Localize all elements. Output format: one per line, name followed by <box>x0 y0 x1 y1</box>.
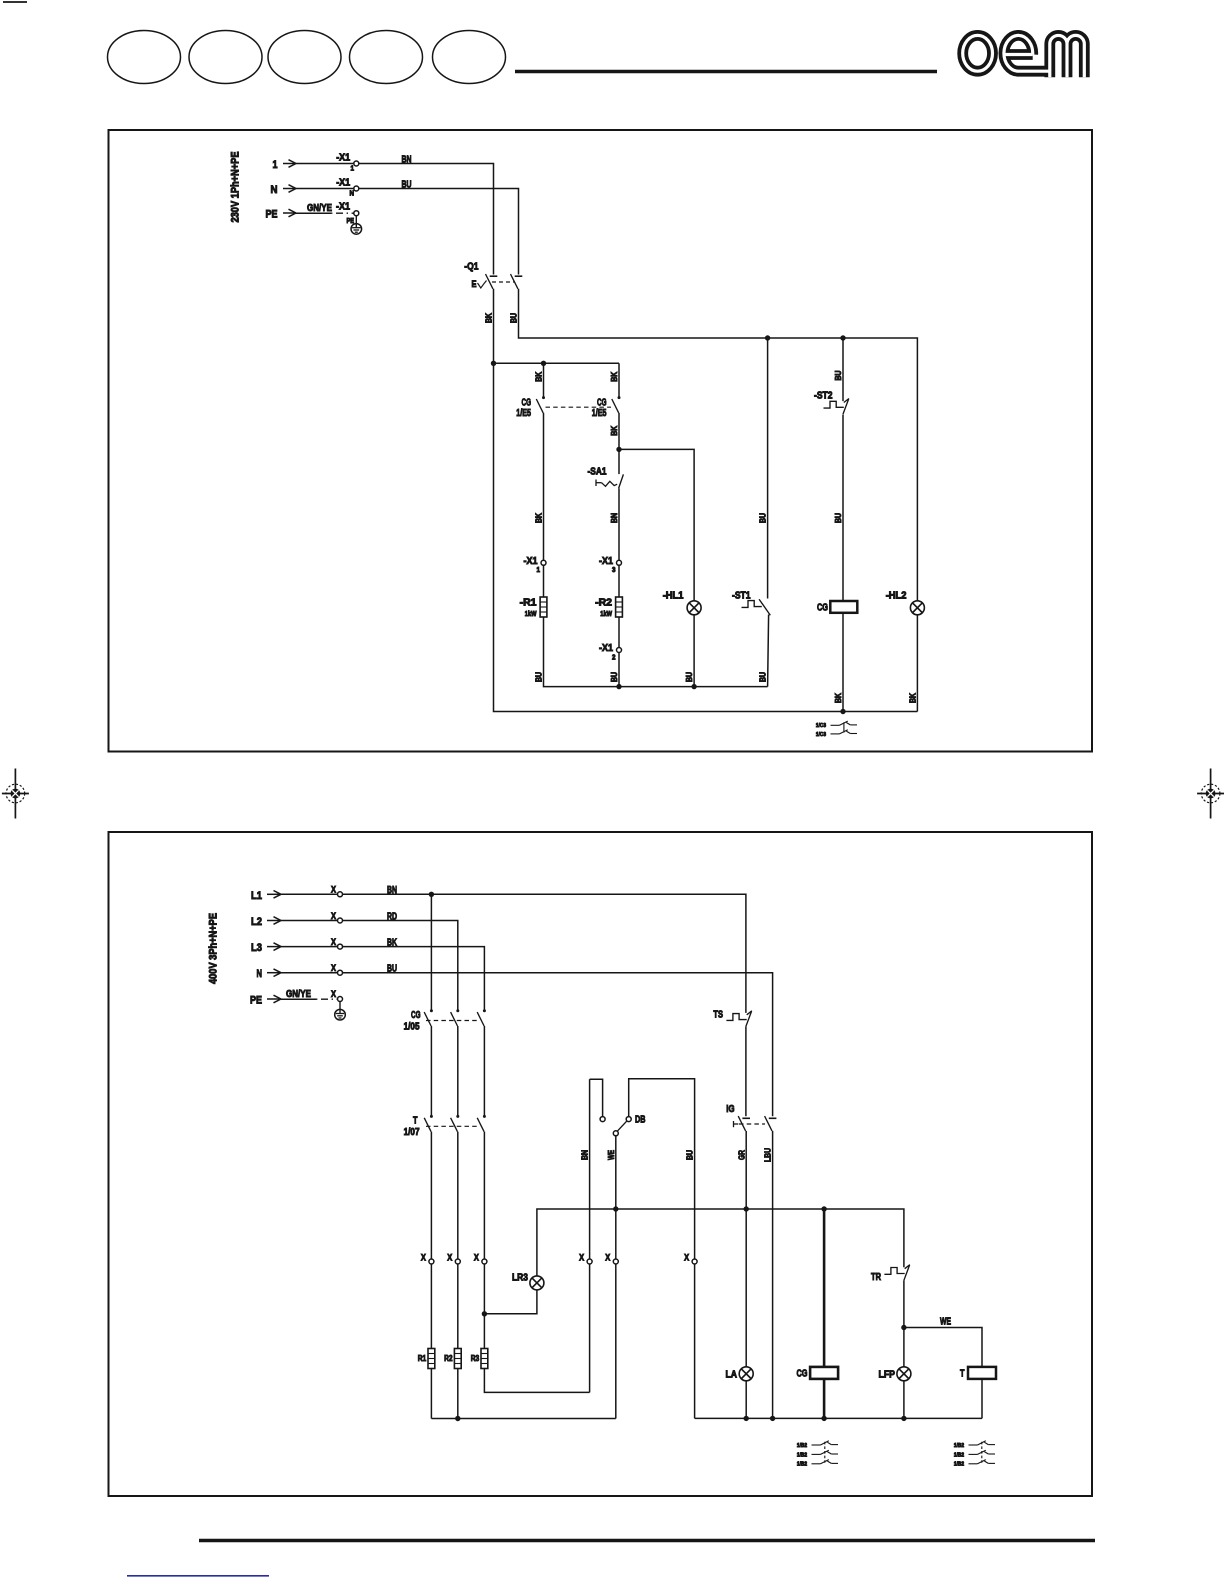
svg-text:BU: BU <box>534 672 544 682</box>
wire col1 to CG contact <box>543 363 545 397</box>
wire Q1 left down to bottom bus <box>494 289 918 712</box>
svg-text:L1: L1 <box>251 890 262 902</box>
svg-text:BU: BU <box>684 672 694 682</box>
svg-text:L3: L3 <box>251 942 262 954</box>
svg-text:X: X <box>684 1252 689 1262</box>
svg-text:X: X <box>447 1252 452 1262</box>
svg-text:X: X <box>331 963 336 973</box>
wire TS to IG <box>745 1026 747 1116</box>
wire L1 branch down <box>430 894 432 1010</box>
svg-text:BU: BU <box>509 313 519 323</box>
wire HL1 to bus2 <box>693 615 695 687</box>
svg-text:BK: BK <box>484 312 494 323</box>
svg-text:CG: CG <box>411 1010 421 1021</box>
svg-text:1/07: 1/07 <box>404 1127 420 1138</box>
svg-text:1/05: 1/05 <box>404 1022 420 1033</box>
svg-text:2: 2 <box>612 654 616 661</box>
svg-text:T: T <box>413 1116 418 1127</box>
wire TR down <box>903 1280 905 1327</box>
svg-text:1/B2: 1/B2 <box>797 1452 807 1458</box>
contact CG 1/E5 a <box>536 396 545 413</box>
logo ellipse 1 <box>108 31 181 84</box>
svg-text:BK: BK <box>534 512 544 523</box>
wire X1:2 to bus2 <box>618 652 620 686</box>
wire WE from DB <box>615 1136 617 1260</box>
terminal -X1:2 <box>617 648 622 653</box>
wire 1 BN <box>359 164 494 275</box>
svg-text:-X1: -X1 <box>599 556 613 567</box>
svg-text:-SA1: -SA1 <box>588 466 607 477</box>
bus1 horizontal <box>494 362 620 364</box>
node right bus ST1 <box>765 335 770 340</box>
wire LA to bottom bus <box>745 1381 747 1419</box>
svg-text:DB: DB <box>635 1115 646 1126</box>
svg-text:LBU: LBU <box>763 1148 773 1162</box>
svg-text:PE: PE <box>266 209 278 221</box>
svg-text:BK: BK <box>534 371 544 382</box>
node bus2 HL1 <box>691 684 696 689</box>
svg-text:BK: BK <box>609 371 619 382</box>
terminal -X1:3 <box>617 560 622 565</box>
svg-text:1/E5: 1/E5 <box>516 408 531 419</box>
svg-text:LFP: LFP <box>879 1369 896 1380</box>
svg-text:LR3: LR3 <box>512 1272 528 1283</box>
terminal -X1:1 lower <box>541 560 546 565</box>
svg-text:X: X <box>474 1252 479 1262</box>
svg-text:-X1: -X1 <box>599 643 613 654</box>
wire N to terminal <box>296 188 354 190</box>
resistor R3 <box>481 1349 488 1369</box>
svg-text:N: N <box>257 968 263 980</box>
svg-text:1/B2: 1/B2 <box>797 1443 807 1449</box>
page corner mark <box>3 1 27 3</box>
node bus1 left <box>491 361 496 366</box>
wire to ST1 <box>767 338 769 599</box>
svg-text:CG: CG <box>817 602 828 613</box>
svg-text:PE: PE <box>250 995 262 1007</box>
svg-text:X: X <box>331 885 336 895</box>
svg-text:E: E <box>472 279 477 289</box>
wire to R1 <box>543 565 545 597</box>
svg-text:1/E5: 1/E5 <box>592 408 607 419</box>
schematic frame 1 <box>109 130 1093 752</box>
svg-text:1: 1 <box>273 159 278 171</box>
wire R1 to bus2 <box>544 617 768 687</box>
selector DB left throw <box>590 1079 603 1117</box>
svg-text:WE: WE <box>940 1317 951 1328</box>
wire R1 down <box>430 1369 432 1419</box>
wire N BU <box>359 189 519 275</box>
svg-text:BN: BN <box>580 1150 590 1160</box>
contact link CG <box>546 406 612 408</box>
svg-text:1/C3: 1/C3 <box>816 732 826 738</box>
terminal -X1:1 <box>354 161 359 166</box>
svg-text:1/B2: 1/B2 <box>797 1462 807 1468</box>
header rule <box>515 70 937 74</box>
terminal X N <box>338 970 343 975</box>
svg-text:1kW: 1kW <box>600 611 612 618</box>
node bottom bus CG <box>840 709 845 714</box>
svg-text:1/B2: 1/B2 <box>954 1452 964 1458</box>
svg-text:BN: BN <box>609 513 619 523</box>
wire R3 to BN <box>484 1369 589 1393</box>
svg-text:-HL1: -HL1 <box>663 591 684 602</box>
wire branch to HL1 <box>619 449 694 601</box>
wires below X terminals <box>430 1264 432 1349</box>
svg-text:400V 3Ph+N+PE: 400V 3Ph+N+PE <box>208 913 220 984</box>
contact CG 1/E5 b <box>612 396 621 413</box>
registration mark left <box>2 769 29 819</box>
feed arrow PE <box>283 209 296 217</box>
registration mark right <box>1197 769 1224 819</box>
logo ellipse 5 <box>433 31 506 84</box>
wire LBU <box>772 1131 774 1419</box>
node LR3 R3 <box>482 1311 487 1316</box>
wire ST1 to bus2 <box>768 615 769 687</box>
svg-text:230V 1Ph+N+PE: 230V 1Ph+N+PE <box>230 152 242 223</box>
terminal X L2 <box>338 918 343 923</box>
node L1 branch <box>429 892 434 897</box>
node bus1 mid <box>541 361 546 366</box>
resistor R1 <box>428 1349 435 1369</box>
wire CG coil to bottom bus <box>842 613 844 712</box>
svg-text:BK: BK <box>609 425 619 436</box>
svg-text:TS: TS <box>713 1009 723 1020</box>
svg-text:X: X <box>331 989 336 999</box>
svg-text:X: X <box>421 1252 426 1262</box>
feed arrow N <box>283 185 296 193</box>
svg-text:X: X <box>331 937 336 947</box>
svg-text:GR: GR <box>736 1150 746 1160</box>
svg-text:R1: R1 <box>418 1353 427 1363</box>
logo ellipse 4 <box>350 31 423 84</box>
svg-text:BU: BU <box>833 371 843 381</box>
wire PE <box>296 212 331 214</box>
svg-text:-HL2: -HL2 <box>886 591 907 602</box>
svg-text:1/C3: 1/C3 <box>816 723 826 729</box>
svg-text:IG: IG <box>726 1104 734 1115</box>
node right bus ST2 <box>840 335 845 340</box>
wire col2 below contact <box>618 413 620 450</box>
terminal X PE <box>338 997 343 1002</box>
svg-text:R3: R3 <box>471 1353 480 1363</box>
breaker -Q1 pole 1 <box>486 274 498 289</box>
svg-text:BU: BU <box>609 672 619 682</box>
wire L3 BK <box>342 947 484 1011</box>
wire ST2 to CG coil <box>842 415 844 602</box>
resistor return bus <box>431 1418 615 1420</box>
terminal X L3 <box>338 944 343 949</box>
svg-text:-ST2: -ST2 <box>814 391 833 402</box>
logo ellipse 2 <box>189 31 262 84</box>
wire col2 BN <box>618 488 620 560</box>
resistor -R2 1kW <box>616 597 623 617</box>
wire 1 to terminal <box>296 163 354 165</box>
wire Q1 right to right bus <box>519 289 918 601</box>
svg-text:LA: LA <box>726 1369 738 1380</box>
svg-text:CG: CG <box>522 397 532 408</box>
svg-text:GN/YE: GN/YE <box>286 989 311 1000</box>
terminal -X1:PE <box>354 211 359 216</box>
svg-text:BK: BK <box>908 692 918 703</box>
svg-text:X: X <box>579 1252 584 1262</box>
breaker -Q1 link <box>492 281 515 283</box>
wire to ST2 <box>842 338 844 401</box>
footer rule <box>199 1539 1095 1543</box>
svg-text:1kW: 1kW <box>525 611 537 618</box>
svg-text:-Q1: -Q1 <box>464 262 479 273</box>
wire N BU <box>342 973 772 1116</box>
svg-text:BU: BU <box>758 672 768 682</box>
svg-text:X: X <box>605 1252 610 1262</box>
svg-text:BU: BU <box>685 1150 695 1160</box>
svg-text:TR: TR <box>871 1272 882 1283</box>
oem logo <box>963 35 1085 77</box>
svg-text:N: N <box>350 191 355 198</box>
wire R2 to X1:2 <box>618 617 620 648</box>
svg-text:1: 1 <box>351 166 355 173</box>
footer link underline <box>127 1575 269 1577</box>
wire LR3 to R3 <box>484 1290 537 1314</box>
selector DB right throw <box>629 1079 695 1260</box>
svg-text:L2: L2 <box>251 916 262 928</box>
node bus2 col2 <box>616 684 621 689</box>
control bus <box>537 1209 904 1276</box>
resistor -R1 1kW <box>540 597 547 617</box>
breaker -Q1 pole 2 <box>511 274 523 289</box>
svg-text:1: 1 <box>537 567 541 574</box>
svg-text:1/B2: 1/B2 <box>954 1443 964 1449</box>
resistor R2 <box>454 1349 461 1369</box>
svg-text:R2: R2 <box>444 1353 453 1363</box>
svg-text:BU: BU <box>833 513 843 523</box>
wire col1 BK <box>543 413 545 561</box>
wire to R2 <box>618 565 620 597</box>
wire GR <box>745 1131 747 1367</box>
earth symbol PE 2 <box>335 1002 346 1021</box>
X terminals row <box>429 1259 434 1264</box>
schematic frame 2 <box>109 832 1093 1496</box>
bottom bus right <box>695 1417 982 1419</box>
svg-text:-X1: -X1 <box>336 177 350 188</box>
terminal X L1 <box>338 892 343 897</box>
terminal -X1:N <box>354 186 359 191</box>
svg-text:-R1: -R1 <box>520 597 537 608</box>
svg-text:CG: CG <box>797 1368 808 1379</box>
svg-text:WE: WE <box>606 1150 616 1160</box>
svg-text:1/B2: 1/B2 <box>954 1462 964 1468</box>
svg-text:-R2: -R2 <box>595 597 612 608</box>
wire L2 RD <box>342 921 458 1011</box>
wires CG to T contacts <box>430 1026 432 1116</box>
wire L1 BN <box>342 894 746 1013</box>
svg-text:-X1: -X1 <box>336 152 350 163</box>
node WE branch <box>901 1325 906 1330</box>
earth symbol PE <box>351 216 362 235</box>
svg-text:T: T <box>960 1368 965 1379</box>
svg-text:X: X <box>331 911 336 921</box>
logo ellipse 3 <box>268 31 341 84</box>
svg-text:-X1: -X1 <box>524 556 538 567</box>
wires T contacts down <box>430 1132 432 1260</box>
wire R2 down <box>457 1369 459 1419</box>
svg-text:3: 3 <box>612 567 616 574</box>
wire BN from DB <box>589 1079 591 1259</box>
svg-text:BU: BU <box>758 513 768 523</box>
selector DB blade <box>617 1121 627 1132</box>
svg-text:N: N <box>271 184 278 196</box>
node HL1 branch <box>616 447 621 452</box>
wire HL2 to bottom bus <box>916 615 918 712</box>
wire col2 to CG contact <box>618 363 620 397</box>
svg-text:-X1: -X1 <box>336 202 350 213</box>
svg-text:PE: PE <box>347 218 355 225</box>
svg-text:-ST1: -ST1 <box>732 591 751 602</box>
svg-text:BK: BK <box>833 692 843 703</box>
feed arrow 1 <box>283 160 296 168</box>
wire WE to T coil <box>904 1328 982 1367</box>
